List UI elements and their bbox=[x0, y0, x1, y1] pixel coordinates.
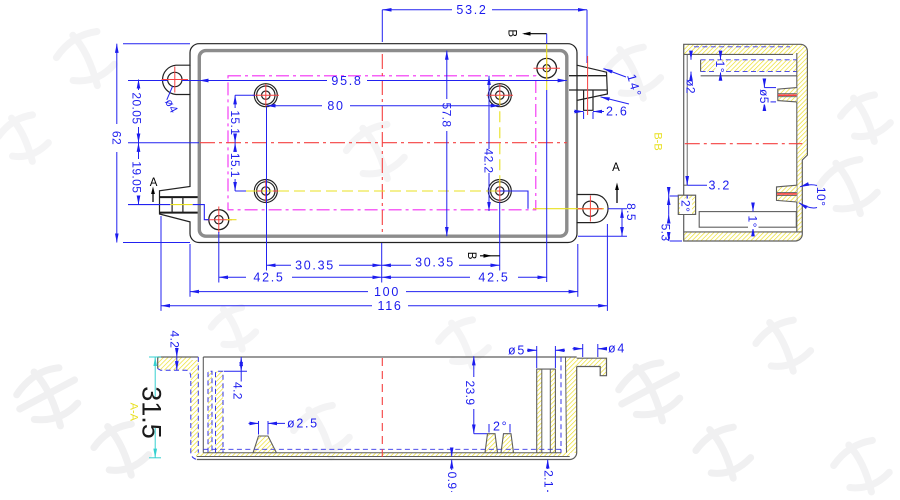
section trace through right bosses bbox=[499, 95, 501, 191]
center line vertical bbox=[381, 54, 383, 235]
section trace jog right bbox=[500, 191, 528, 209]
A-A rib 2 hatch bbox=[216, 371, 224, 452]
A-A top edge bbox=[158, 357, 577, 369]
A-A screw boss bbox=[537, 369, 556, 453]
flange center line red bbox=[587, 56, 589, 115]
dimension 0.9 bbox=[451, 452, 453, 492]
A-A wall inner edge hidden bbox=[197, 357, 199, 453]
svg-text:A: A bbox=[150, 177, 158, 189]
dimension 30.35 left bbox=[267, 107, 382, 271]
dimension 1 deg top bbox=[720, 52, 722, 79]
plan view bbox=[109, 3, 644, 313]
dimension 10 deg bbox=[799, 185, 817, 208]
dimension 42.5 left bbox=[219, 232, 382, 283]
A-A floor top hidden bbox=[203, 448, 561, 450]
dimension 8.5 bbox=[578, 209, 627, 237]
dimension 23.9 bbox=[474, 356, 487, 434]
A-A left wall hatch bbox=[191, 360, 199, 453]
dimension 20.05 bbox=[128, 80, 199, 143]
B-B floor hatch bbox=[797, 53, 808, 234]
B-B bottom groove bbox=[699, 212, 796, 228]
dimension 2 deg bbox=[669, 189, 678, 214]
B-B hidden line top bbox=[694, 46, 790, 48]
dimension 53.2 bbox=[382, 10, 587, 63]
section A-A trace left bbox=[128, 205, 237, 220]
dimension 1 deg bottom bbox=[752, 204, 754, 234]
svg-text:19.05: 19.05 bbox=[129, 161, 143, 193]
svg-text:3.2: 3.2 bbox=[709, 178, 731, 192]
svg-text:95.8: 95.8 bbox=[331, 74, 362, 88]
ear hole top-left bbox=[168, 72, 182, 86]
left flange slot bbox=[171, 197, 173, 213]
dimension 4.2 left bbox=[176, 348, 178, 370]
B-B top wall hatch bbox=[684, 44, 808, 54]
screw hole top-right bbox=[537, 58, 557, 78]
A-A right flange hatch bbox=[577, 358, 607, 376]
center line horizontal bbox=[200, 142, 567, 144]
svg-text:42.2: 42.2 bbox=[482, 149, 496, 174]
B-B rib hidden edges bbox=[701, 59, 797, 61]
inner wall (thick gray) bbox=[199, 51, 567, 237]
svg-text:B: B bbox=[465, 252, 477, 260]
section marker B top bbox=[505, 29, 546, 44]
svg-text:15.1: 15.1 bbox=[228, 153, 242, 178]
A-A screw boss hatch bbox=[537, 369, 542, 453]
svg-text:15.1: 15.1 bbox=[228, 110, 242, 135]
dimension 3.2 bbox=[687, 178, 707, 202]
svg-text:30.35: 30.35 bbox=[295, 259, 335, 273]
dimension 19.05 bbox=[138, 143, 140, 205]
svg-text:10°: 10° bbox=[814, 187, 828, 206]
svg-text:ø5: ø5 bbox=[757, 89, 771, 104]
dimension 57.8 bbox=[446, 51, 448, 237]
B-B boss lower bbox=[777, 185, 797, 202]
A-A right wall inner edge bbox=[560, 357, 562, 453]
svg-text:116: 116 bbox=[377, 299, 402, 313]
svg-text:1°: 1° bbox=[713, 61, 727, 73]
dimension d4 aa bbox=[573, 344, 607, 357]
body outline bbox=[160, 44, 609, 243]
B-B wall lip line bbox=[686, 54, 688, 185]
svg-text:ø2: ø2 bbox=[684, 79, 698, 94]
magenta lid outline bbox=[228, 76, 536, 210]
svg-text:5.3: 5.3 bbox=[659, 224, 673, 242]
section marker B bottom bbox=[465, 252, 500, 260]
svg-text:A-A: A-A bbox=[127, 403, 139, 422]
section A-A view bbox=[127, 331, 626, 493]
A-A liner edge bbox=[202, 357, 204, 453]
A-A right flange outline bbox=[577, 358, 607, 376]
svg-text:B-B: B-B bbox=[651, 132, 663, 150]
dimension 14 deg bbox=[601, 69, 630, 104]
A-A rib 1 hatch bbox=[208, 371, 212, 452]
boss bottom-right bbox=[488, 180, 511, 203]
dimension d5 aa bbox=[527, 346, 565, 368]
A-A twin boss hatch bbox=[485, 434, 498, 453]
dimension 2.1 bbox=[547, 460, 549, 493]
boss top-right bbox=[488, 84, 511, 107]
svg-text:2.1: 2.1 bbox=[541, 470, 555, 488]
svg-text:ø4: ø4 bbox=[608, 342, 626, 356]
dimension d2 bbox=[690, 52, 692, 79]
svg-text:53.2: 53.2 bbox=[456, 3, 487, 17]
B-B center line bbox=[685, 143, 803, 145]
dimension 62 bbox=[117, 44, 190, 243]
A-A outer bottom edge bbox=[197, 367, 577, 460]
right flange slot 2.6 bbox=[584, 90, 593, 110]
body edge across top-left ear bbox=[189, 65, 191, 94]
svg-text:A: A bbox=[612, 162, 620, 174]
section marker A left bbox=[150, 177, 158, 202]
dimension 15.1 upper bbox=[235, 95, 255, 143]
A-A boss 2.5 bbox=[253, 436, 276, 453]
dimension 4.2 mid bbox=[224, 357, 247, 382]
dimension 5.3 bbox=[669, 214, 682, 241]
section B-B trace vertical bbox=[546, 44, 548, 90]
svg-text:ø2.5: ø2.5 bbox=[287, 417, 319, 431]
svg-text:23.9: 23.9 bbox=[463, 381, 477, 406]
svg-text:42.5: 42.5 bbox=[253, 271, 284, 285]
A-A boss 2.5 hatch bbox=[253, 436, 276, 453]
dimension 100 bbox=[190, 244, 578, 297]
dimension 15.1 lower bbox=[235, 143, 246, 191]
B-B floor inner line bbox=[796, 53, 798, 232]
dimension 30.35 right bbox=[382, 202, 500, 271]
dimension 116 bbox=[161, 216, 607, 311]
A-A twin bosses bbox=[485, 434, 498, 453]
svg-text:2°: 2° bbox=[679, 200, 693, 212]
boss bottom-left bbox=[254, 180, 277, 203]
B-B rib lower edge bbox=[701, 75, 797, 77]
B-B flange hatch bbox=[678, 195, 695, 214]
svg-text:2°: 2° bbox=[493, 420, 508, 434]
ear hole bottom-right bbox=[583, 201, 598, 216]
svg-text:8.5: 8.5 bbox=[624, 203, 638, 221]
svg-text:31.5: 31.5 bbox=[137, 386, 167, 439]
dimension 2.6 bbox=[574, 112, 604, 120]
section B-B view bbox=[651, 44, 828, 241]
section marker A right bbox=[612, 162, 620, 203]
svg-text:2.6: 2.6 bbox=[606, 104, 628, 118]
B-B slot top edge bbox=[684, 53, 793, 55]
A-A flange underside hidden bbox=[158, 369, 197, 460]
A-A rib edges hidden bbox=[208, 371, 212, 452]
left flange inner lines bbox=[159, 196, 199, 198]
right flange inner lines bbox=[569, 75, 607, 77]
section trace through bottom bosses bbox=[246, 190, 500, 192]
svg-text:20.05: 20.05 bbox=[129, 92, 143, 124]
svg-text:1°: 1° bbox=[746, 216, 760, 228]
dimension 31.5 bbox=[149, 357, 161, 458]
B-B bottom wall inner line bbox=[684, 231, 802, 233]
svg-text:4.2: 4.2 bbox=[231, 382, 245, 400]
A-A right wall hatch bbox=[566, 357, 577, 453]
svg-text:42.5: 42.5 bbox=[478, 271, 509, 285]
A-A center line bbox=[381, 358, 383, 459]
svg-text:ø5: ø5 bbox=[508, 343, 526, 357]
svg-text:57.8: 57.8 bbox=[439, 103, 453, 128]
A-A left flange hatch bbox=[158, 357, 191, 370]
B-B outline bbox=[684, 44, 808, 241]
svg-text:0.9: 0.9 bbox=[445, 472, 459, 490]
svg-text:30.35: 30.35 bbox=[415, 256, 455, 270]
dimension leader d4 bbox=[167, 87, 173, 100]
B-B boss upper bbox=[778, 88, 797, 102]
svg-text:80: 80 bbox=[327, 99, 344, 113]
A-A floor lines bbox=[203, 452, 561, 454]
dimension 80 bbox=[267, 105, 500, 107]
dimension 42.2 bbox=[488, 76, 490, 211]
body edge across right flange bbox=[576, 65, 578, 100]
dimension 2 deg aa bbox=[489, 424, 510, 433]
B-B top inner rib hatch bbox=[701, 60, 797, 72]
svg-text:100: 100 bbox=[374, 285, 400, 299]
dimension 42.5 right bbox=[382, 276, 547, 278]
B-B bottom wall hatch bbox=[684, 232, 803, 241]
boss top-left bbox=[254, 84, 277, 107]
svg-text:B: B bbox=[505, 29, 517, 37]
svg-text:62: 62 bbox=[109, 131, 123, 145]
svg-text:4.2: 4.2 bbox=[167, 331, 181, 349]
dimension d2.5 bbox=[249, 421, 286, 435]
A-A floor hatch bbox=[196, 453, 570, 457]
body edge across bottom-right ear bbox=[576, 195, 578, 223]
B-B rib end face bbox=[700, 60, 702, 72]
dimension 95.8 bbox=[199, 80, 567, 82]
dimension d5 upper bbox=[764, 81, 776, 108]
screw hole bottom-left bbox=[209, 210, 229, 230]
